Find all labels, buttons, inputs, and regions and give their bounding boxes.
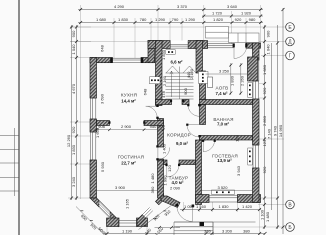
dim line AOGV width [206, 73, 253, 75]
wall kitchen-living W9 west pier [97, 121, 110, 126]
wall tambour west + NE diagonal upper [156, 194, 164, 205]
extension left y122 [70, 121, 90, 123]
wall bay SW diagonal [90, 198, 119, 227]
extension line x231.4 [230, 11, 232, 44]
axis line D [70, 41, 286, 43]
svg-text:7 140: 7 140 [266, 128, 271, 139]
svg-text:1 920: 1 920 [241, 11, 252, 16]
svg-text:АОГВ: АОГВ [216, 86, 229, 91]
dim line guest width [202, 190, 253, 192]
extension line x80.6 [80, 5, 82, 199]
svg-text:3 240: 3 240 [71, 176, 76, 187]
extension right y98 [259, 97, 266, 99]
window bay bottom [119, 220, 138, 227]
axis line E [70, 26, 286, 28]
wall tambour north W6 piece1 [164, 160, 168, 165]
svg-text:3 943: 3 943 [236, 165, 241, 176]
wall stairs-corridor south piece1 [156, 100, 172, 105]
dim line bottom row2 [104, 233, 265, 235]
wall kitchen-living W9 east pier [144, 121, 164, 126]
svg-text:920: 920 [262, 87, 267, 94]
svg-text:КОРИДОР: КОРИДОР [167, 132, 191, 137]
door AOGV exterior leaf+arc [234, 46, 247, 59]
svg-text:КУХНЯ: КУХНЯ [121, 93, 137, 98]
wall bay NE lower block [137, 215, 146, 227]
ticks bottom row1 [182, 208, 261, 211]
placeholder groups [0, 0, 19, 235]
wall bay SW corner block [107, 218, 120, 227]
extension line x114 [113, 18, 115, 58]
boiler unit AOGV [208, 77, 213, 88]
wall joint kitchen-bay [148, 41, 155, 63]
svg-text:3 200: 3 200 [222, 228, 233, 233]
svg-text:3 690: 3 690 [100, 93, 105, 104]
wall corridor west W1 lower piece1 [158, 119, 164, 148]
svg-text:3 250: 3 250 [219, 69, 230, 74]
porch post [200, 222, 205, 226]
svg-text:478: 478 [161, 90, 166, 97]
wall stairs west W1 upper [156, 41, 163, 106]
dim line bottom row1 [180, 209, 261, 211]
staircase break marks [166, 66, 196, 73]
window kitchen left [90, 98, 97, 119]
sheet frame left border [18, 0, 20, 235]
staircase walk line arrow [170, 71, 173, 97]
svg-text:380: 380 [243, 228, 250, 233]
wall corridor west W1 lower piece2 [158, 159, 164, 160]
svg-text:7,0 м²: 7,0 м² [217, 121, 230, 126]
axis circle B [286, 223, 295, 232]
wall guest west W5 [196, 140, 202, 205]
title table tick 2 [0, 149, 19, 151]
svg-text:790: 790 [172, 17, 179, 22]
wall top right pier [246, 43, 261, 48]
svg-text:3 370: 3 370 [177, 4, 188, 9]
svg-text:2 090: 2 090 [170, 186, 181, 191]
svg-text:3 900: 3 900 [115, 185, 126, 190]
window guest right [253, 145, 260, 168]
svg-text:14 960: 14 960 [278, 124, 283, 137]
dim line living width [97, 190, 158, 192]
dim line right col2 [271, 43, 273, 210]
svg-text:4 670: 4 670 [71, 83, 76, 94]
ticks top row3 [79, 21, 262, 24]
window kitchen top [113, 58, 142, 63]
svg-text:900: 900 [183, 87, 188, 94]
dim line top row3 [78, 22, 263, 24]
svg-text:950: 950 [150, 124, 157, 129]
door tambour leaf+arc [167, 165, 179, 177]
svg-text:1 830: 1 830 [218, 204, 229, 209]
wall left pier2 [90, 119, 97, 132]
door AOGV interior leaf+arc [188, 105, 199, 117]
svg-text:920: 920 [71, 126, 76, 133]
ticks right col3 [276, 42, 279, 229]
svg-text:3 520: 3 520 [217, 185, 228, 190]
svg-text:780: 780 [140, 17, 147, 22]
svg-text:1 040: 1 040 [265, 44, 270, 55]
svg-text:1 830: 1 830 [71, 144, 76, 155]
svg-text:120: 120 [235, 134, 240, 141]
svg-text:7,4 м²: 7,4 м² [215, 91, 228, 96]
radiator stair bay top [166, 50, 176, 54]
svg-text:1 680: 1 680 [96, 17, 107, 22]
svg-text:1 050: 1 050 [184, 204, 195, 209]
ticks top row1 [79, 8, 262, 11]
svg-text:1 290: 1 290 [185, 17, 196, 22]
dim line top row2 [202, 15, 263, 17]
svg-text:1 820: 1 820 [213, 17, 224, 22]
axis circle V [286, 200, 295, 209]
svg-text:12 260: 12 260 [66, 134, 71, 147]
svg-text:920: 920 [235, 17, 242, 22]
svg-text:1 990: 1 990 [162, 175, 167, 186]
wall AOGV west W2 [196, 41, 203, 74]
jamb marks [110, 58, 112, 63]
svg-text:648: 648 [143, 88, 148, 95]
wall top bay west piece [148, 41, 170, 49]
wall bath west W2 lower [200, 136, 206, 140]
wall AOGV west lower [200, 71, 206, 100]
extension line x246 [245, 18, 247, 44]
axis line B [176, 226, 286, 228]
axis circle D [286, 37, 295, 46]
radiator AOGV right [248, 83, 252, 98]
svg-text:22,7 м²: 22,7 м² [121, 161, 136, 166]
extension line x182 [181, 18, 183, 44]
axis circle E [286, 23, 295, 32]
wall tambour west vertical [158, 160, 164, 198]
ticks top row2 [202, 15, 262, 18]
svg-text:Г: Г [289, 53, 292, 59]
extension bottom x199.5 [199, 202, 201, 212]
radiator stair east [199, 72, 209, 84]
dim line right col4 [282, 8, 284, 234]
svg-text:2 160: 2 160 [162, 75, 167, 86]
svg-text:1 290: 1 290 [155, 17, 166, 22]
window guest bottom [209, 195, 238, 203]
wall tambour north W6 piece2 [179, 160, 196, 165]
wall AOGV-bath south Wst east [200, 100, 253, 105]
extension left y57.5 [70, 57, 91, 59]
extension left y164 [70, 163, 90, 165]
porch top-right steps [206, 27, 260, 43]
door front leaf+arc [177, 206, 192, 222]
dim line right col1 [264, 25, 266, 229]
wall stairs-corridor south piece2 [182, 100, 189, 105]
wall left pier1 [90, 58, 97, 99]
wall right pier bottom [253, 168, 260, 203]
svg-text:4 290: 4 290 [114, 4, 125, 9]
extension bottom x212.5 [212, 202, 214, 212]
extension bottom x237.5 [237, 202, 239, 212]
extension bottom bay x107 [106, 226, 108, 235]
wall tambour south slant [161, 196, 180, 208]
svg-text:1 830: 1 830 [230, 75, 235, 86]
svg-text:2 260: 2 260 [240, 75, 245, 86]
svg-text:6,6 м²: 6,6 м² [170, 60, 183, 65]
svg-text:5 930: 5 930 [100, 161, 105, 172]
wall bath-guest north W4 [200, 136, 253, 141]
dim line top row1 [78, 9, 263, 11]
svg-text:648: 648 [100, 44, 105, 51]
window AOGV top [208, 43, 234, 48]
svg-text:2 893: 2 893 [262, 115, 267, 126]
dim line kitchen-living [97, 129, 164, 131]
wall right pier mid [253, 99, 260, 145]
wall top bay east piece [188, 41, 208, 49]
wall left pier3 [90, 160, 97, 198]
wall guest bottom east piece [238, 195, 261, 203]
svg-text:2 160: 2 160 [189, 68, 194, 79]
wall top kitchen west piece [90, 58, 113, 63]
staircase treads [166, 66, 197, 99]
wall top kitchen east piece [141, 58, 155, 63]
axis line V [258, 204, 286, 206]
svg-text:1 100: 1 100 [260, 209, 265, 220]
extension right y198 [258, 197, 279, 199]
dim line left col inner [76, 25, 78, 200]
title table tick 1 [0, 135, 19, 137]
door guest leaf+arc [203, 140, 214, 152]
extension line x203.8 [203, 5, 205, 44]
ticks left col [70, 26, 78, 200]
svg-text:2 900: 2 900 [121, 124, 132, 129]
svg-text:920: 920 [262, 166, 267, 173]
svg-text:900: 900 [71, 30, 76, 37]
extension bottom x259.5 [259, 202, 261, 235]
door living-corridor leaf+arc [158, 148, 170, 160]
radiator stair west [150, 77, 161, 84]
title table tick 4 [0, 177, 19, 179]
title table tick 5 [0, 190, 19, 192]
extension line x135 [134, 18, 136, 58]
extension line x170 [169, 18, 171, 44]
window bay NE diagonal [142, 207, 153, 218]
svg-text:1 830: 1 830 [161, 49, 166, 60]
ticks right col1 [263, 26, 266, 229]
staircase center stringer [179, 67, 181, 100]
svg-text:900: 900 [158, 124, 165, 129]
svg-text:4,0 м²: 4,0 м² [171, 180, 184, 185]
svg-text:1 720: 1 720 [212, 11, 223, 16]
svg-text:9,0 м²: 9,0 м² [176, 141, 189, 146]
dim line diag SE walkway [139, 205, 181, 230]
svg-text:1 690: 1 690 [95, 127, 100, 138]
svg-text:900: 900 [265, 30, 270, 37]
extension left y27 [70, 26, 91, 28]
svg-text:980: 980 [249, 17, 256, 22]
window AOGV right [253, 81, 260, 99]
wall guest bottom west piece [196, 195, 210, 203]
svg-text:1 040: 1 040 [71, 44, 76, 55]
wall right flue block [248, 57, 258, 81]
radiator guest bottom [212, 190, 235, 194]
svg-text:1 830: 1 830 [118, 17, 129, 22]
axis line G [261, 55, 286, 57]
svg-text:1 190: 1 190 [122, 228, 133, 233]
extension line x151 [150, 18, 152, 44]
ticks right col4 [282, 8, 285, 229]
svg-text:1 480: 1 480 [150, 173, 155, 184]
radiator guest right [248, 148, 252, 165]
window bay SW diagonal [99, 201, 110, 218]
svg-text:14,4 м²: 14,4 м² [121, 99, 136, 104]
svg-text:380: 380 [204, 228, 211, 233]
window stair bay top [170, 41, 188, 49]
extension right y83.5 [259, 83, 266, 85]
svg-text:390: 390 [150, 186, 155, 193]
svg-text:1 480: 1 480 [265, 211, 270, 222]
dim line right col3 [277, 25, 279, 229]
svg-text:1 165: 1 165 [125, 198, 130, 209]
extension right y139 [252, 138, 284, 140]
extension line x158 [157, 5, 159, 44]
svg-text:123: 123 [262, 139, 267, 146]
dim lines AOGV vertical [231, 63, 241, 95]
dim line left col outer [71, 25, 73, 200]
door kitchen-corridor leaf+arc [146, 106, 158, 117]
extension line x260.6 [260, 5, 262, 43]
extension left y198 [68, 197, 90, 199]
wall right pier top [253, 43, 260, 60]
wall bath west W2 mid [200, 105, 206, 125]
extension bottom x183.5 [183, 202, 185, 212]
axis circle G [286, 51, 295, 60]
svg-text:3 640: 3 640 [227, 4, 238, 9]
title table tick 3 [0, 162, 19, 164]
svg-text:1 160: 1 160 [196, 204, 207, 209]
extension bottom bay x147 [146, 226, 148, 235]
window living left [90, 132, 97, 160]
porch bottom steps [174, 222, 256, 235]
svg-text:9 740: 9 740 [272, 125, 277, 136]
wall bay NE corner block [137, 218, 148, 227]
extension left y41.5 [70, 41, 91, 43]
door bath leaf+arc [187, 125, 199, 138]
svg-text:13,9 м²: 13,9 м² [217, 158, 232, 163]
svg-text:ГОСТИНАЯ: ГОСТИНАЯ [118, 155, 144, 160]
svg-text:1 400: 1 400 [162, 143, 167, 154]
svg-text:1 680: 1 680 [262, 64, 267, 75]
dim line diag SW outer [76, 207, 104, 235]
ticks bottom row2 [106, 232, 267, 235]
extension left y136 [70, 135, 90, 137]
svg-text:1 420: 1 420 [242, 204, 253, 209]
sheet frame inner column line [14, 128, 16, 196]
svg-text:120: 120 [167, 164, 172, 171]
